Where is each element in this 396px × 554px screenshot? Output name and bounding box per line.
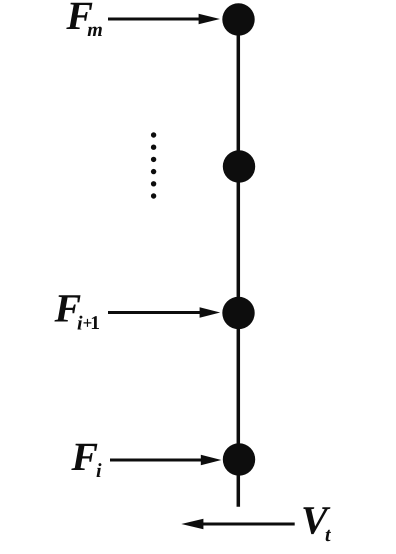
node (unlabeled intermediate mass)	[223, 150, 255, 182]
label Fi+1	[54, 286, 101, 335]
label Vt	[301, 498, 332, 547]
svg-text:i: i	[96, 460, 102, 482]
svg-text:t: t	[325, 524, 332, 546]
svg-text:1: 1	[90, 313, 100, 334]
arrow for base shear Vt (pointing left)	[181, 519, 294, 530]
label Fi	[70, 434, 102, 482]
svg-text:m: m	[87, 19, 103, 41]
label Fm	[65, 0, 102, 41]
arrow for force Fi+1	[108, 307, 220, 317]
svg-text:F: F	[70, 434, 98, 479]
wire: main vertical column line	[237, 19, 241, 507]
node i mass	[223, 443, 255, 475]
vertical ellipsis dots	[151, 132, 156, 198]
node m (top mass)	[222, 3, 254, 35]
arrow for force Fm	[108, 14, 220, 24]
arrow for force Fi	[110, 455, 221, 465]
node i+1 mass	[222, 297, 254, 329]
